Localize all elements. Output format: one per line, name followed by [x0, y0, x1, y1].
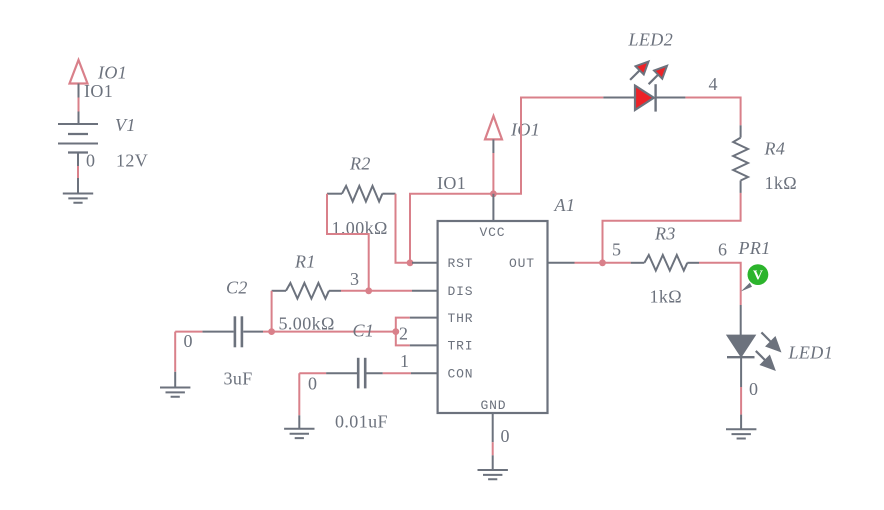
wire (R1 left down to C2 node) [271, 291, 273, 332]
wire DIS pin lead [412, 290, 438, 292]
wire (R1 right to DIS) [341, 290, 412, 292]
wire THR pin lead [410, 317, 438, 319]
junction (C2/R1 node) [268, 328, 275, 335]
wire VCC pin lead [492, 194, 494, 221]
svg-text:4: 4 [709, 74, 718, 94]
svg-text:LED1: LED1 [788, 342, 834, 362]
svg-text:IO1: IO1 [84, 81, 113, 101]
ground (under V1) [63, 194, 93, 203]
svg-text:OUT: OUT [509, 256, 535, 271]
LED2 [603, 84, 685, 111]
svg-text:0: 0 [749, 379, 758, 399]
svg-text:0: 0 [184, 331, 193, 351]
svg-text:3: 3 [350, 269, 359, 289]
svg-text:RST: RST [448, 256, 474, 271]
svg-text:C2: C2 [226, 278, 248, 298]
LED1 arrow 1 [757, 328, 784, 355]
junction (RST node) [407, 259, 414, 266]
op-amp/timer A1 body [438, 221, 548, 413]
svg-text:R4: R4 [764, 138, 786, 158]
svg-text:5.00kΩ: 5.00kΩ [279, 313, 335, 333]
wire OUT net (node 5) [548, 262, 631, 264]
wire RST pin lead [412, 262, 438, 264]
wire (R3 right to LED1) [699, 263, 741, 305]
ground (under A1) [478, 470, 508, 479]
svg-text:IO1: IO1 [510, 119, 540, 139]
resistor R2 [327, 186, 396, 202]
svg-text:R2: R2 [349, 154, 371, 174]
battery V1 [58, 124, 98, 166]
LED2 arrow 1 [626, 57, 653, 84]
svg-text:6: 6 [718, 239, 727, 259]
wire TRI pin lead [410, 344, 438, 346]
wire net IO1 (RST riser, horizontal, LED2 feed) [410, 98, 603, 263]
svg-text:0: 0 [86, 151, 95, 171]
wire (connector to VCC junction) [492, 153, 494, 194]
ground (under C1) [284, 429, 314, 438]
svg-text:TRI: TRI [448, 339, 474, 354]
svg-text:1: 1 [400, 351, 409, 371]
capacitor C1 [326, 358, 383, 389]
svg-text:VCC: VCC [480, 225, 506, 240]
svg-text:LED2: LED2 [628, 29, 674, 49]
on-page connector IO1 (above A1) [485, 116, 502, 153]
wire (node 2 to TRI) [396, 332, 410, 346]
svg-text:1kΩ: 1kΩ [650, 286, 683, 306]
junction (node 2) [392, 328, 399, 335]
wire (node 2 to THR) [396, 318, 410, 332]
resistor R4 (vertical) [733, 125, 748, 193]
wire (LED1 to ground) [740, 387, 742, 429]
wire (R2 left to node 3) [327, 194, 369, 291]
svg-text:THR: THR [448, 311, 474, 326]
svg-text:GND: GND [481, 398, 507, 413]
wire (C2 right to node 2) [263, 331, 396, 333]
LED1 (vertical, pointing down) [727, 305, 755, 387]
ground (under C2) [160, 388, 190, 397]
svg-text:C1: C1 [353, 320, 375, 340]
junction (node 5) [599, 259, 606, 266]
svg-text:R3: R3 [654, 224, 676, 244]
svg-text:R1: R1 [294, 252, 316, 272]
svg-text:V1: V1 [115, 115, 136, 135]
wire (R2 right to RST node) [396, 194, 413, 263]
capacitor C2 [202, 316, 263, 347]
wire (R4 top to LED2 cathode, node 4) [685, 98, 740, 126]
wire GND pin lead [492, 413, 494, 470]
svg-text:IO1: IO1 [97, 63, 127, 83]
wire (C1 left to ground) [299, 373, 326, 429]
svg-text:CON: CON [448, 366, 474, 381]
svg-text:2: 2 [399, 324, 408, 344]
wire (node 5 up and over to R4) [603, 193, 741, 263]
probe PR1 [741, 264, 769, 291]
wire (C2 left to ground) [175, 332, 202, 388]
resistor R1 [272, 283, 341, 299]
svg-text:IO1: IO1 [437, 173, 466, 193]
ground (under LED1) [726, 429, 756, 438]
wire (C1 right to CON) [383, 372, 411, 374]
wire (V1 - to ground) [77, 166, 79, 194]
svg-text:5: 5 [612, 239, 621, 259]
on-page connector IO1 (top-left) [70, 60, 88, 98]
svg-text:V: V [753, 269, 763, 284]
resistor R3 [631, 255, 699, 271]
LED1 arrow 2 [752, 347, 779, 374]
junction (VCC node) [490, 190, 497, 197]
junction (node 3) [365, 287, 372, 294]
svg-text:PR1: PR1 [738, 238, 771, 258]
svg-text:0.01uF: 0.01uF [335, 411, 388, 431]
svg-text:0: 0 [501, 426, 510, 446]
svg-text:12V: 12V [116, 151, 148, 171]
svg-text:DIS: DIS [448, 284, 474, 299]
LED2 arrow 2 [645, 62, 672, 89]
wire (IO1 connector to V1 +) [78, 98, 80, 125]
svg-text:1kΩ: 1kΩ [765, 173, 798, 193]
svg-text:3uF: 3uF [224, 369, 253, 389]
svg-text:0: 0 [308, 373, 317, 393]
wire CON pin lead [411, 372, 438, 374]
svg-text:A1: A1 [554, 195, 576, 215]
